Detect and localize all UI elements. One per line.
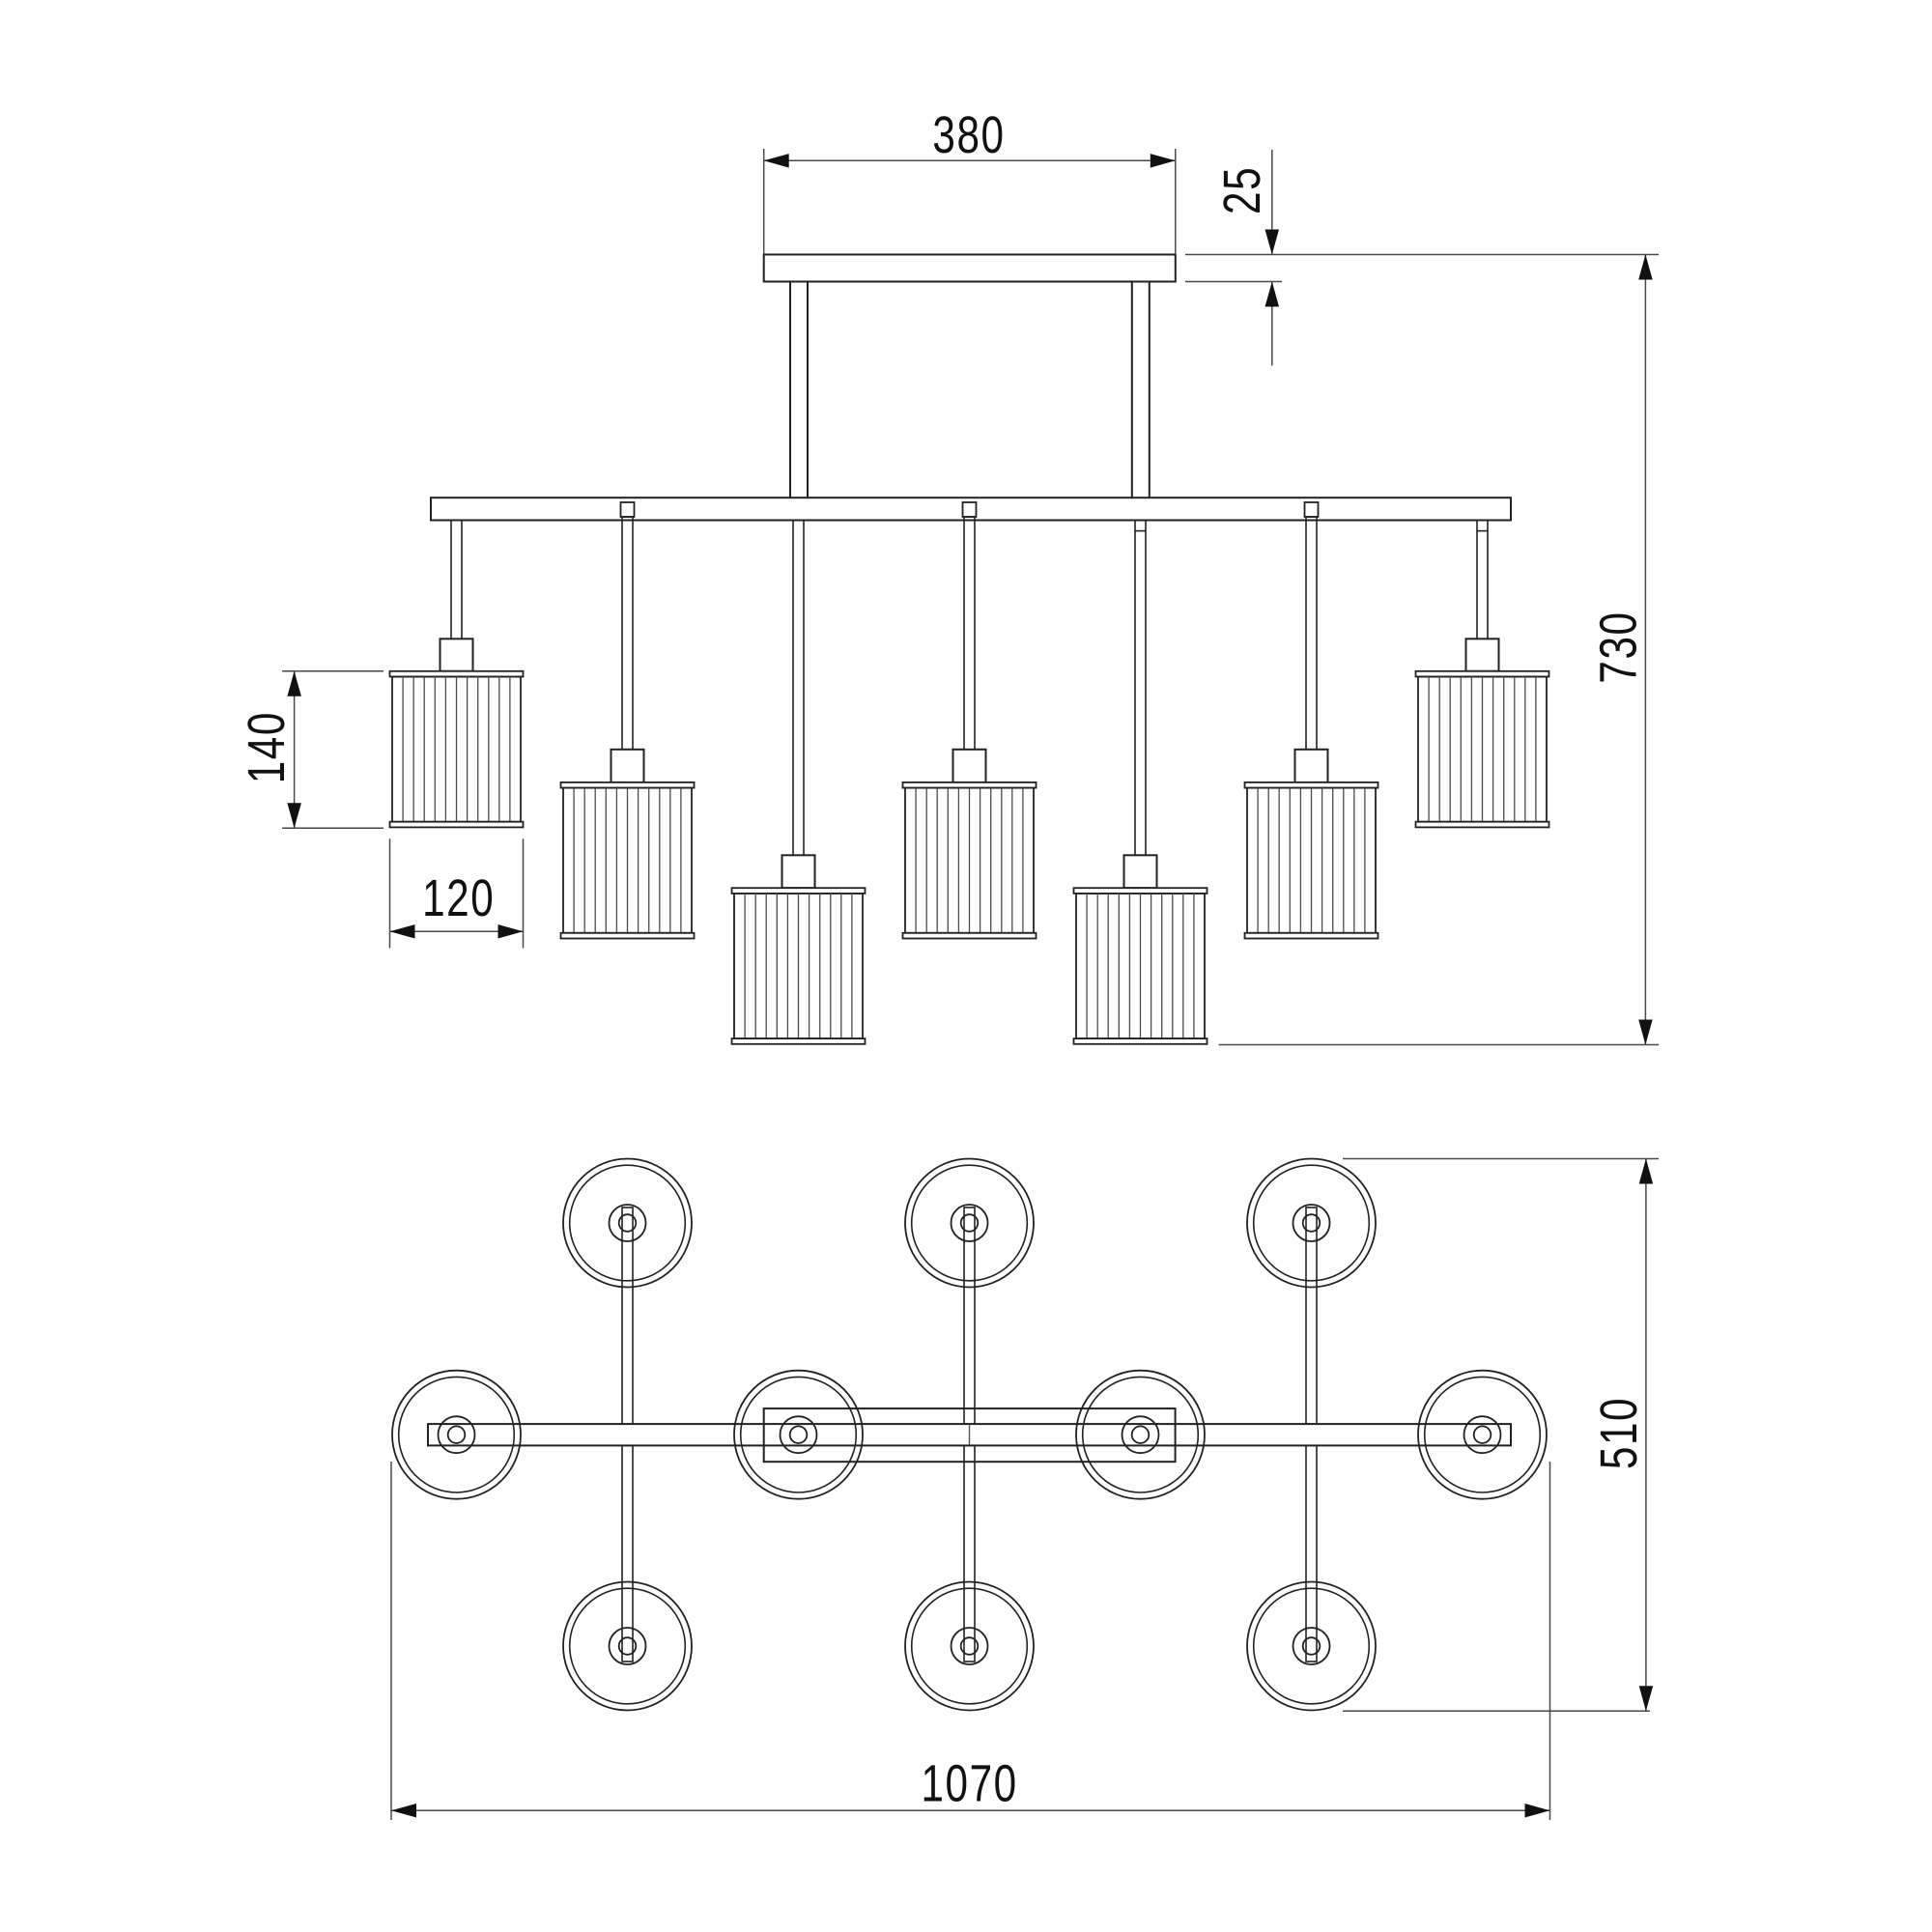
dim line 380 <box>764 159 1176 161</box>
plan shade circle top-3 <box>1247 1159 1376 1288</box>
shade 6 pleated body <box>1247 788 1376 933</box>
ext line plate bottom <box>1185 281 1282 283</box>
dimension 140 (shade height) <box>238 671 384 828</box>
shade 3 bottom rim <box>732 1038 866 1044</box>
shade 5 pleated body <box>1076 894 1205 1038</box>
shade 5 pleat lines <box>1087 894 1194 1038</box>
rod of pendant 3 <box>793 521 804 856</box>
plan cross arm at x=1004 lower segment <box>964 1445 975 1662</box>
shade 3 top rim <box>732 888 866 894</box>
plan shade circle top-1 <box>563 1159 692 1288</box>
ext line left of dim 380 <box>763 149 765 254</box>
shade 6 top rim <box>1245 782 1378 788</box>
ext line plate top (shared 25/730) <box>1185 254 1659 256</box>
pendant 6 <box>1245 517 1378 939</box>
svg-text:120: 120 <box>422 869 495 927</box>
shade 7 top rim <box>1416 671 1549 677</box>
main horizontal bar <box>431 497 1511 520</box>
dimension 120 (shade width) <box>390 838 524 948</box>
shade 3 pleated body <box>734 894 863 1038</box>
dim line 1070 <box>391 1809 1550 1811</box>
dimension 380 (plate width) <box>764 106 1176 254</box>
sleeve tick on rod 7 <box>1477 530 1488 532</box>
socket block of pendant 2 <box>611 750 644 782</box>
square hub 3 on bar <box>1305 502 1319 517</box>
plan: main bar <box>428 1424 1511 1445</box>
rod of pendant 4 <box>964 517 975 750</box>
plan shade circle mid-1 <box>392 1371 521 1499</box>
dim text 25 <box>1213 166 1271 214</box>
shade 2 top rim <box>561 782 695 788</box>
plan: ceiling plate outline <box>764 1408 1176 1462</box>
shade 4 pleat lines <box>916 788 1023 933</box>
dim text 120 <box>422 869 495 927</box>
dim line 730 <box>1644 255 1646 1045</box>
plan cross arm at x=1004 upper segment <box>964 1207 975 1424</box>
shade 7 bottom rim <box>1416 822 1549 828</box>
shade 7 pleated body <box>1418 677 1547 822</box>
ext line shade1 right <box>523 838 525 948</box>
shade 6 bottom rim <box>1245 933 1378 939</box>
ext line right of dim 380 <box>1175 149 1177 254</box>
pendant 5 <box>1074 521 1207 1044</box>
shade 4 top rim <box>903 782 1037 788</box>
dim 25 upper leader <box>1271 150 1273 255</box>
plan shade circle mid-3 <box>1076 1371 1205 1499</box>
rod of pendant 1 <box>451 521 462 639</box>
shade 2 bottom rim <box>561 933 695 939</box>
svg-text:380: 380 <box>932 106 1005 164</box>
dim text 1070 <box>921 1754 1017 1812</box>
socket block of pendant 5 <box>1124 855 1157 888</box>
shade 2 pleated body <box>563 788 692 933</box>
ceiling mount plate (380x25) <box>764 255 1176 282</box>
shade 1 top rim <box>390 671 524 677</box>
svg-text:510: 510 <box>1590 1397 1648 1469</box>
square hub 1 on bar <box>621 502 635 517</box>
shade 1 pleat lines <box>403 677 510 822</box>
sleeve tick on rod 5 <box>1135 530 1146 532</box>
svg-text:1070: 1070 <box>921 1754 1017 1812</box>
dimension 730 (overall height) <box>1219 255 1659 1045</box>
ext line top of plan <box>1343 1158 1659 1160</box>
shade 4 bottom rim <box>903 933 1037 939</box>
shade 7 pleat lines <box>1429 677 1536 822</box>
shade 1 bottom rim <box>390 822 524 828</box>
pendant 4 <box>903 517 1037 939</box>
socket block of pendant 3 <box>782 855 815 888</box>
plan shade circle bottom-2 <box>905 1582 1034 1711</box>
plan cross arm at x=650 upper segment <box>622 1207 633 1424</box>
rod of pendant 7 <box>1477 521 1488 639</box>
right support tube <box>1132 282 1150 498</box>
dim 25 lower leader <box>1271 282 1273 366</box>
socket block of pendant 4 <box>953 750 986 782</box>
shade 6 pleat lines <box>1258 788 1365 933</box>
pendant 2 <box>561 517 695 939</box>
dim line 140 <box>294 671 296 828</box>
dim text 140 <box>238 711 296 783</box>
plan shade circle mid-4 <box>1418 1371 1547 1499</box>
rod of pendant 2 <box>622 517 633 750</box>
ext line bottom of plan <box>1343 1710 1650 1712</box>
ext line shade1 left <box>389 838 391 948</box>
dim line 510 <box>1645 1159 1647 1712</box>
socket block of pendant 1 <box>440 639 473 671</box>
dim text 510 <box>1590 1397 1648 1469</box>
socket block of pendant 7 <box>1466 639 1499 671</box>
dim line 120 <box>390 930 524 932</box>
socket block of pendant 6 <box>1295 750 1328 782</box>
dimension 1070 (plan width) <box>391 1462 1550 1820</box>
ext line shade1 top <box>282 670 384 672</box>
shade 1 pleated body <box>392 677 521 822</box>
shade 5 top rim <box>1074 888 1207 894</box>
dimension 510 (plan depth) <box>1343 1159 1659 1712</box>
ext line shade1 bottom <box>282 827 384 829</box>
ext line plan right <box>1549 1462 1551 1820</box>
plan shade circle top-2 <box>905 1159 1034 1288</box>
square hub 2 on bar <box>963 502 977 517</box>
svg-text:140: 140 <box>238 711 296 783</box>
left support tube <box>790 282 808 498</box>
plan shade circle mid-2 <box>734 1371 863 1499</box>
shade 3 pleat lines <box>745 894 852 1038</box>
ext line bottom of lowest shade <box>1219 1044 1659 1046</box>
pendant 3 <box>732 521 866 1044</box>
shade 5 bottom rim <box>1074 1038 1207 1044</box>
ext line plan left <box>390 1462 392 1820</box>
plan cross arm at x=650 lower segment <box>622 1445 633 1662</box>
shade 2 pleat lines <box>574 788 681 933</box>
plan cross arm at x=1358 upper segment <box>1306 1207 1317 1424</box>
svg-text:730: 730 <box>1590 611 1648 683</box>
rod of pendant 6 <box>1306 517 1317 750</box>
plan cross arm at x=1358 lower segment <box>1306 1445 1317 1662</box>
pendant 1 <box>390 521 524 828</box>
plan: bar centre joint <box>969 1425 971 1445</box>
pendant 7 <box>1416 521 1549 828</box>
svg-text:25: 25 <box>1213 166 1271 214</box>
dim text 730 <box>1590 611 1648 683</box>
shade 4 pleated body <box>905 788 1034 933</box>
plan shade circle bottom-1 <box>563 1582 692 1711</box>
rod of pendant 5 <box>1135 521 1146 856</box>
dim text 380 <box>932 106 1005 164</box>
plan shade circle bottom-3 <box>1247 1582 1376 1711</box>
dimension 25 (plate thickness) <box>1185 150 1659 366</box>
